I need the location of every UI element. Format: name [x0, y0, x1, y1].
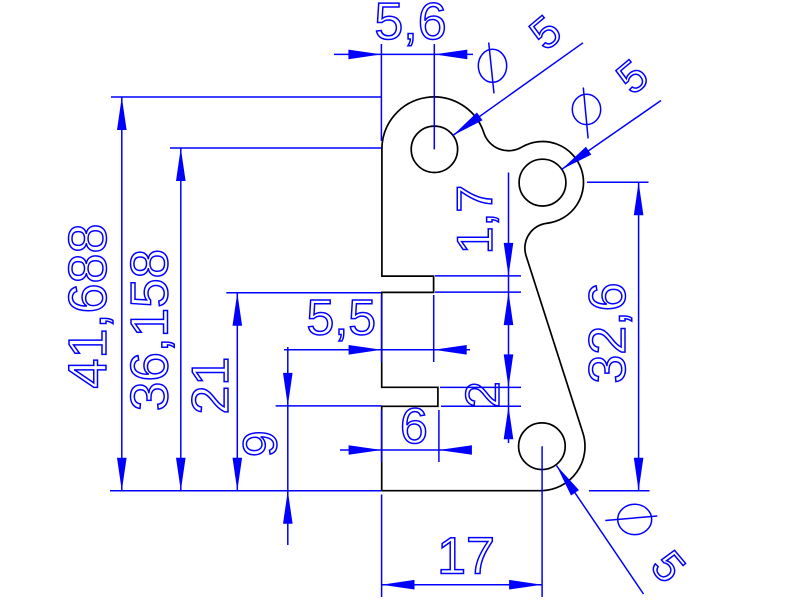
leader Ø5 hole3: [557, 466, 644, 595]
ext line (21): [226, 292, 381, 294]
dim 17: [382, 584, 543, 586]
dim 21: [236, 293, 238, 491]
svg-text:5,5: 5,5: [307, 290, 377, 346]
svg-text:5: 5: [521, 6, 571, 59]
svg-text:1,7: 1,7: [447, 185, 503, 255]
ext line 1,7 lower: [435, 291, 521, 293]
ext line 2 upper: [440, 386, 521, 388]
ext line 17 right: [541, 446, 543, 597]
ext line bottom shared: [110, 490, 382, 492]
Ø symbol 2: [572, 94, 600, 124]
leader Ø5 hole2: [562, 101, 662, 170]
ext line (9): [276, 405, 382, 407]
svg-text:9: 9: [234, 430, 287, 457]
ext line 32,6 top: [587, 181, 649, 183]
ext line 5,6 left: [380, 44, 382, 141]
part outline: [382, 97, 585, 491]
Ø symbol 3: [618, 504, 652, 534]
svg-text:21: 21: [182, 357, 240, 415]
ext line 32,6 bottom: [589, 490, 650, 492]
hole 2 (top right, Ø5): [519, 159, 566, 206]
leader Ø5 hole1: [453, 43, 583, 136]
ext line 5,5 left: [381, 295, 383, 362]
svg-text:32,6: 32,6: [579, 282, 637, 383]
ext line 5,5 right: [433, 295, 435, 362]
ext line top (41,688): [111, 96, 382, 98]
dim 6 (outside arrows): [340, 449, 470, 451]
ext line 17 left: [381, 495, 383, 598]
svg-text:5: 5: [641, 542, 694, 592]
ext line 1,7 upper: [435, 275, 521, 277]
svg-text:36,158: 36,158: [121, 249, 180, 411]
svg-text:2: 2: [457, 381, 510, 408]
Ø symbol 1: [478, 49, 506, 82]
ext line 6 right: [438, 410, 440, 462]
svg-text:5,6: 5,6: [374, 0, 446, 51]
ext line 5,6 right: [433, 44, 435, 149]
hole 1 (top left, Ø5): [411, 126, 457, 172]
dim 36,158: [180, 148, 182, 491]
svg-text:5: 5: [607, 51, 657, 104]
ext line 2 lower: [441, 405, 521, 407]
dim 5,6 (outside arrows): [334, 53, 473, 55]
svg-text:17: 17: [437, 528, 495, 586]
svg-text:41,688: 41,688: [58, 223, 118, 388]
dim 9 (outside arrows): [287, 347, 289, 545]
dim 1,7 and 2 shared line: [508, 173, 510, 444]
svg-text:6: 6: [400, 398, 428, 454]
dim 5,5 (outside arrows): [284, 349, 470, 351]
dim 32,6: [638, 182, 640, 491]
ext line 6 left: [381, 410, 383, 462]
ext line (36,158): [170, 147, 382, 149]
dim 41,688: [121, 97, 123, 491]
hole 3 (bottom, Ø5): [519, 423, 566, 470]
